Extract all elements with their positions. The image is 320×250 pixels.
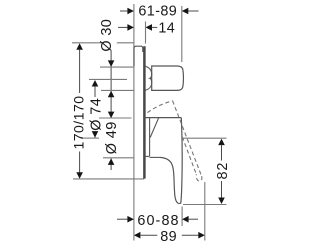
label Ø 49 (rotated) bbox=[104, 121, 120, 154]
dimension 60-88 bbox=[117, 213, 198, 229]
svg-text:170/170: 170/170 bbox=[71, 95, 87, 149]
wire: top extension line y=42.8 bbox=[72, 42, 134, 44]
wire: extension line handle-bottom y=157.8 bbox=[103, 157, 134, 159]
lever front face bbox=[181, 118, 182, 204]
dimension 14 bbox=[118, 21, 175, 37]
wire: extension line stem-top y=67.1 bbox=[100, 66, 134, 68]
shut-off knob bbox=[152, 66, 184, 90]
wire: extension line plate-front for 14 bbox=[145, 22, 147, 44]
svg-text:Ø 49: Ø 49 bbox=[104, 121, 120, 154]
lever handle cone diagonal bbox=[150, 118, 159, 138]
dimension 170/170 bbox=[71, 43, 87, 178]
stem between plate and knob bbox=[145, 66, 152, 90]
dimension 89 bbox=[134, 229, 205, 245]
dimension Ø 74 bbox=[84, 79, 127, 138]
wire: extension line 60-88 right x=182.1 bbox=[181, 207, 183, 227]
svg-text:Ø 30: Ø 30 bbox=[99, 19, 115, 52]
svg-text:82: 82 bbox=[215, 162, 231, 180]
wire: extension line lever-tip y=204.5 bbox=[183, 204, 227, 206]
label Ø 30 (rotated) bbox=[99, 19, 115, 52]
wire: extension line handle-top y=118 bbox=[99, 117, 132, 119]
wire: extension line knob-bottom y=90.4 bbox=[101, 89, 134, 91]
wire: wall extension line bbox=[133, 4, 135, 241]
escutcheon plate (side view, dark band) bbox=[143, 46, 146, 178]
dashed lever raised position bbox=[147, 101, 202, 181]
lever underside curve bbox=[160, 157, 181, 203]
wire: extension line 82-top y=138.2 bbox=[183, 137, 227, 139]
concealed valve sleeve bbox=[134, 46, 143, 66]
wire: knob-front extension line bbox=[181, 6, 183, 62]
svg-text:14: 14 bbox=[158, 21, 175, 37]
wire: Ø30 and Ø49 shared dimension shaft with arrows bbox=[108, 51, 115, 171]
dimension 61-89 bbox=[120, 3, 199, 19]
lever handle base bottom step bbox=[144, 156, 160, 157]
lever handle base top edge bbox=[144, 117, 181, 119]
svg-text:Ø 74: Ø 74 bbox=[89, 98, 105, 131]
svg-text:89: 89 bbox=[160, 229, 177, 245]
svg-text:61-89: 61-89 bbox=[138, 3, 177, 19]
wire: extension line 89 right x=205.2 bbox=[204, 182, 206, 241]
wire: bottom extension line plate y=178.9 bbox=[73, 178, 144, 180]
svg-text:60-88: 60-88 bbox=[137, 213, 179, 229]
dimension 82 bbox=[215, 139, 231, 204]
lever handle base back edge bbox=[149, 118, 151, 157]
